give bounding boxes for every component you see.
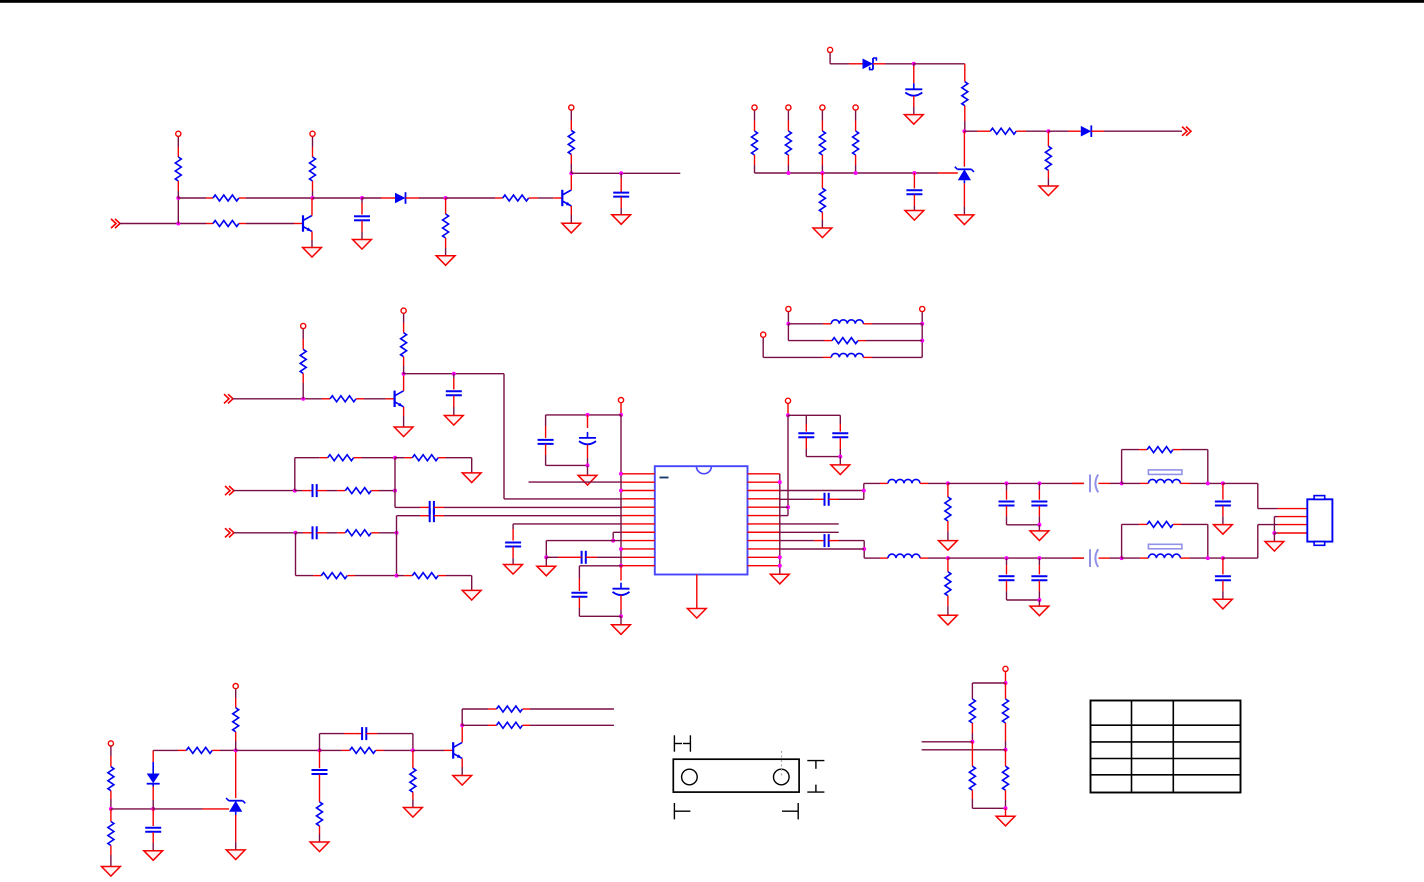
wire — [1274, 517, 1307, 533]
filter FL1 — [1148, 470, 1182, 475]
resistor R19 — [401, 333, 407, 374]
power VCC8 — [853, 105, 858, 131]
node M4 — [1004, 806, 1008, 816]
capacitor C2 — [613, 173, 629, 214]
wire — [948, 557, 1084, 559]
node B7 — [912, 171, 916, 175]
wire — [546, 541, 622, 558]
node H103 — [1037, 556, 1041, 560]
ground — [687, 609, 706, 619]
node B2 — [962, 129, 966, 133]
resistor R14 — [853, 131, 859, 173]
zener Z1 — [955, 131, 974, 215]
capacitor C20 — [999, 483, 1015, 524]
resistor R11 — [752, 131, 758, 173]
resistor R12 — [785, 131, 791, 173]
node K6 — [460, 709, 464, 727]
mech hole left — [682, 769, 698, 785]
wire rail2 — [806, 456, 840, 458]
wire — [1223, 483, 1307, 508]
node A4 — [360, 196, 364, 200]
wire — [513, 523, 622, 525]
mech outline — [673, 759, 799, 792]
node K2 — [151, 807, 155, 811]
wire — [579, 566, 622, 579]
node H4 — [1037, 523, 1041, 531]
ground — [1030, 606, 1049, 616]
wire vcc2 — [780, 415, 788, 515]
IC U1 left pins — [622, 474, 655, 566]
ground — [831, 465, 850, 475]
capacitor C1 — [354, 198, 370, 240]
capacitor C12 pol — [613, 566, 630, 616]
resistor R5 — [443, 198, 449, 256]
inductor L2 — [763, 353, 922, 357]
ground — [1030, 531, 1049, 541]
wire — [914, 64, 965, 82]
capacitor C9 — [430, 509, 623, 522]
resistor R8 — [962, 82, 968, 132]
power VCC5 — [752, 105, 757, 131]
resistor R22 — [337, 488, 395, 494]
capacitor C10 — [538, 415, 554, 466]
power VCC6 — [786, 105, 791, 131]
ground — [612, 625, 631, 635]
input port P5 — [225, 528, 234, 537]
diode D4 — [147, 750, 160, 809]
node H105 — [1120, 524, 1124, 560]
power VCC18 — [1003, 666, 1008, 683]
capacitor C23 — [1215, 483, 1231, 524]
wire gndbus — [779, 474, 781, 575]
capacitor C15 — [571, 579, 587, 617]
ground — [453, 776, 472, 786]
wire — [948, 482, 1084, 484]
capacitor C11 pol — [579, 415, 596, 466]
wire — [233, 398, 323, 400]
capacitor C19 — [780, 534, 864, 558]
ground — [462, 473, 481, 483]
resistor R32 — [945, 558, 951, 615]
capacitor C5 — [446, 374, 462, 416]
node F10 — [544, 555, 548, 566]
wire stub — [922, 749, 1006, 751]
wire rail3 — [579, 615, 621, 617]
resistor R38 — [108, 767, 114, 809]
transistor Q3 — [386, 374, 404, 427]
ground — [444, 416, 463, 426]
node F4 — [619, 472, 623, 476]
resistor R27 — [1122, 447, 1208, 484]
resistor R40 — [153, 747, 236, 753]
wire — [395, 506, 430, 508]
capacitor C6 — [295, 484, 338, 497]
capacitor C16 — [798, 415, 814, 456]
mech centerline — [781, 751, 783, 778]
node F2 — [586, 413, 590, 417]
mech dim bottom-right — [782, 803, 798, 819]
resistor R43 — [317, 802, 323, 842]
wire rail — [972, 683, 1005, 699]
diode D3 — [1081, 125, 1092, 137]
IC U1 — [655, 466, 748, 574]
inductor L4 — [864, 554, 948, 558]
ground — [1214, 599, 1233, 609]
capacitor C21 — [1031, 483, 1047, 524]
wire — [397, 515, 430, 517]
zener Z2 — [226, 750, 245, 850]
ground — [394, 427, 413, 437]
wire stub — [780, 531, 839, 533]
node H7 — [1221, 481, 1225, 485]
node E2 — [393, 456, 397, 460]
wire stub — [922, 741, 973, 743]
resistor R18 — [322, 396, 386, 402]
node B1 — [912, 62, 916, 66]
ground — [996, 816, 1015, 826]
ground — [436, 256, 455, 266]
inductor L6 — [1122, 554, 1223, 558]
node E1 — [293, 458, 297, 493]
node A1 — [176, 198, 180, 226]
ground — [939, 615, 958, 625]
output port P2 — [1182, 127, 1191, 136]
node M1 — [1004, 681, 1008, 685]
node K5 — [411, 748, 415, 752]
diode D1 — [395, 192, 406, 204]
resistor R7 — [568, 130, 574, 173]
wire stub — [780, 523, 839, 525]
ground — [904, 115, 923, 125]
node D1 — [301, 397, 305, 401]
wire — [111, 808, 153, 810]
resistor R50 — [1003, 750, 1009, 809]
wire — [234, 490, 295, 492]
wire rail — [546, 414, 621, 416]
input port P4 — [225, 486, 234, 495]
node A7 — [619, 171, 623, 175]
node H102 — [1005, 556, 1009, 560]
ground — [462, 590, 481, 600]
wire rail — [788, 414, 840, 416]
node G5 — [778, 555, 782, 559]
node C1 — [786, 322, 790, 341]
inductor L5 — [1122, 479, 1223, 483]
node H101 — [946, 556, 950, 560]
node M3 — [1004, 748, 1008, 752]
resistor R44 — [410, 750, 416, 807]
capacitor C7 — [430, 501, 623, 514]
connector J2 — [1307, 496, 1332, 546]
node B6 — [854, 171, 858, 175]
node G7 — [862, 489, 866, 493]
capacitor C4 — [906, 173, 922, 211]
node E6 — [395, 574, 399, 578]
node J1 — [1272, 531, 1307, 542]
capacitor C30 — [145, 809, 161, 851]
wire bus — [755, 172, 958, 174]
transistor Q4 — [453, 725, 462, 775]
resistor R17 — [300, 349, 306, 398]
resistor R25 — [397, 573, 472, 591]
IC U1 bottom pin — [696, 575, 698, 609]
power VCC15 — [785, 398, 790, 415]
resistor R1 — [175, 157, 181, 198]
resistor R2 — [178, 195, 312, 201]
node K4 — [318, 734, 322, 753]
node B5 — [820, 171, 824, 175]
resistor R23 — [337, 530, 396, 536]
wire rail — [1007, 524, 1040, 526]
mech dim right — [807, 761, 824, 793]
resistor R33 — [1122, 521, 1208, 558]
resistor R46 — [462, 722, 614, 728]
capacitor C13 — [505, 524, 521, 565]
node K3 — [234, 748, 238, 752]
ground — [612, 215, 631, 225]
power VCC7 — [820, 105, 825, 131]
capacitor C17 — [832, 415, 848, 456]
node H6 — [1206, 481, 1210, 485]
node F8 — [619, 614, 623, 625]
resistor R26 — [945, 483, 951, 540]
wire rail2 — [546, 464, 588, 466]
wire — [120, 223, 207, 225]
node H5 — [1120, 450, 1124, 486]
ground — [1214, 525, 1233, 535]
ground — [353, 240, 372, 250]
resistor R41 — [233, 708, 239, 751]
ground — [310, 842, 329, 852]
wire — [446, 197, 503, 199]
node C2 — [920, 322, 924, 358]
power VCC3 — [569, 105, 574, 130]
node A2 — [176, 196, 180, 200]
wire — [404, 374, 623, 499]
power VCC9 — [786, 306, 791, 323]
wire — [780, 548, 864, 550]
node E3 — [393, 458, 397, 508]
resistor R4 — [310, 157, 316, 198]
node F3 — [586, 463, 590, 475]
node H3 — [1037, 481, 1041, 485]
top border bar — [0, 0, 1424, 3]
wire — [236, 749, 320, 751]
ground — [303, 248, 322, 258]
resistor R6 — [503, 195, 554, 201]
mech hole right — [774, 769, 790, 785]
resistor R48 — [1003, 683, 1009, 750]
filter FL2 — [1148, 544, 1182, 549]
capacitor C22 pol — [1072, 475, 1122, 493]
ground — [404, 808, 423, 818]
wire — [153, 808, 229, 810]
node F1 — [619, 413, 623, 417]
node H106 — [1206, 556, 1210, 560]
ground — [1039, 186, 1058, 196]
wire — [313, 197, 363, 199]
resistor R10 — [1045, 131, 1051, 186]
node G1 — [786, 413, 790, 417]
wire — [964, 130, 990, 132]
resistor R45 — [462, 706, 614, 712]
resistor R3 — [206, 221, 294, 227]
ground — [504, 565, 523, 575]
node D3 — [452, 372, 456, 376]
IC U1 right pins — [748, 474, 780, 566]
node B4 — [786, 171, 790, 175]
power VCC4 — [828, 47, 863, 63]
resistor R9 — [990, 128, 1048, 134]
resistor R24 — [296, 573, 397, 579]
wire rail — [1007, 599, 1040, 601]
capacitor C32 — [312, 750, 328, 802]
capacitor C27 pol — [1072, 549, 1122, 567]
ground — [770, 574, 789, 584]
node D2 — [402, 372, 406, 376]
node H1 — [946, 481, 950, 485]
node K1 — [109, 807, 113, 811]
node G4 — [778, 480, 782, 484]
wire — [406, 197, 446, 199]
mech dim top — [674, 735, 690, 751]
node H2 — [1005, 481, 1009, 485]
resistor R16 — [788, 338, 922, 344]
wire — [1223, 525, 1307, 559]
resistor R20 — [295, 455, 395, 461]
capacitor C26 — [1031, 558, 1047, 600]
ground — [939, 541, 958, 551]
capacitor C25 — [999, 558, 1015, 600]
transistor Q1 — [294, 198, 312, 248]
wire — [780, 483, 864, 499]
diode D2 schottky — [863, 58, 877, 70]
input port P3 — [224, 394, 233, 403]
capacitor C18 — [780, 493, 864, 506]
wire — [1091, 130, 1182, 132]
ground — [102, 867, 121, 877]
power VCC10 — [920, 306, 925, 323]
resistor R21 — [395, 455, 472, 473]
capacitor C3 — [905, 64, 922, 115]
wire — [571, 172, 680, 174]
node G3 — [780, 505, 790, 509]
node G2 — [838, 455, 842, 465]
inductor L3 — [864, 479, 948, 483]
inductor L1 — [788, 320, 922, 324]
capacitor C28 — [1215, 558, 1231, 599]
node G8 — [862, 547, 866, 551]
node F7 — [619, 564, 623, 568]
ground — [578, 475, 597, 485]
wire — [413, 749, 453, 751]
wire rail2 — [972, 807, 1005, 809]
wire — [362, 197, 395, 199]
node F5 — [619, 489, 623, 493]
node F9 — [611, 539, 615, 543]
node C3 — [920, 339, 924, 343]
ground — [955, 215, 974, 225]
node H107 — [1221, 556, 1225, 560]
power VCC17 — [233, 684, 238, 708]
capacitor C14 — [546, 551, 622, 564]
ground — [1265, 542, 1284, 552]
ground — [813, 228, 832, 238]
node E4 — [294, 531, 298, 576]
node A3 — [311, 196, 315, 200]
resistor R15 — [819, 173, 825, 228]
wire — [1048, 130, 1080, 132]
power VCC13 — [401, 308, 406, 333]
power VCC1 — [176, 131, 181, 157]
node A6 — [569, 171, 573, 175]
wire vcc bus — [620, 415, 622, 566]
power VCC12 — [301, 323, 306, 349]
node G6 — [778, 564, 782, 568]
node M2 — [970, 740, 974, 744]
node A5 — [444, 196, 448, 200]
input port P1 — [111, 219, 120, 228]
node H104 — [1037, 598, 1041, 606]
wire — [873, 63, 914, 65]
node B3 — [1046, 129, 1050, 133]
capacitor C31 — [320, 727, 413, 750]
capacitor C8 — [296, 526, 338, 539]
ground — [226, 850, 245, 860]
resistor R49 — [969, 742, 975, 809]
transistor Q2 — [553, 173, 571, 223]
ground — [905, 211, 924, 221]
node F6 — [619, 547, 623, 551]
table — [1091, 701, 1241, 793]
wire — [234, 532, 296, 534]
ground — [537, 566, 556, 576]
resistor R39 — [108, 809, 114, 867]
power VCC14 — [618, 398, 623, 415]
wire stub — [529, 481, 623, 483]
wire jog — [613, 532, 622, 540]
ground — [562, 223, 581, 233]
mech dim bottom-left — [674, 803, 690, 819]
ground — [144, 851, 163, 861]
resistor R13 — [819, 131, 825, 173]
node E5 — [395, 516, 399, 576]
resistor R47 — [969, 699, 975, 742]
power VCC16 — [108, 741, 113, 767]
resistor R42 — [320, 747, 413, 753]
power VCC2 — [310, 131, 315, 157]
power VCC11 — [761, 332, 766, 357]
